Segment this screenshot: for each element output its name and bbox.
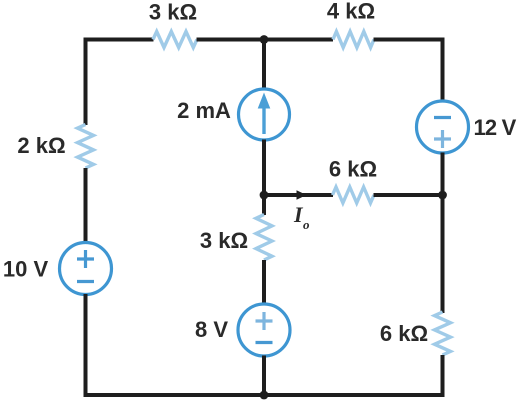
wire left vertical lower: [84, 294, 88, 397]
svg-text:8 V: 8 V: [195, 317, 228, 342]
node junction bottom: [260, 391, 269, 400]
node junction right: [438, 191, 447, 200]
wire middle vertical (resistor to 8V): [262, 260, 266, 306]
voltage source V 12V: [417, 101, 469, 153]
node junction top-middle: [260, 35, 269, 44]
svg-text:2 mA: 2 mA: [177, 98, 231, 123]
wire left vertical upper: [84, 38, 88, 126]
wire middle horizontal left segment: [264, 193, 333, 197]
svg-text:3 kΩ: 3 kΩ: [200, 228, 248, 253]
wire top-middle horizontal segment: [197, 38, 334, 42]
wire middle vertical bottom: [262, 356, 266, 396]
wire right vertical top: [441, 40, 445, 103]
svg-text:2 kΩ: 2 kΩ: [17, 133, 65, 158]
resistor R 3k top: [153, 32, 197, 48]
current source I 2mA: [239, 89, 290, 140]
wire top-left horizontal segment: [84, 38, 154, 42]
voltage source V 8V: [238, 304, 290, 356]
svg-text:6 kΩ: 6 kΩ: [329, 157, 377, 182]
resistor R 6k middle: [333, 187, 375, 203]
wire middle vertical (source to node): [262, 140, 266, 216]
resistor R 6k right: [435, 312, 451, 355]
wire left vertical middle: [84, 168, 88, 244]
svg-text:10 V: 10 V: [3, 257, 49, 282]
wire top-right horizontal segment: [374, 38, 445, 42]
voltage source V 10V: [60, 243, 112, 295]
svg-text:4 kΩ: 4 kΩ: [327, 0, 375, 24]
wire middle horizontal right segment: [374, 193, 443, 197]
resistor R 4k top: [333, 32, 374, 48]
node junction middle: [260, 191, 269, 200]
wire right vertical middle: [441, 153, 445, 314]
wire right vertical bottom: [441, 355, 445, 397]
resistor R 3k middle: [256, 215, 272, 261]
svg-text:3 kΩ: 3 kΩ: [149, 0, 197, 25]
wire middle vertical top: [262, 40, 266, 91]
svg-text:o: o: [303, 217, 310, 232]
arrow current Io: [297, 190, 307, 200]
resistor R 2k left: [78, 125, 94, 169]
svg-text:12 V: 12 V: [473, 115, 516, 140]
svg-text:6 kΩ: 6 kΩ: [380, 321, 428, 346]
wire bottom horizontal: [84, 393, 445, 397]
